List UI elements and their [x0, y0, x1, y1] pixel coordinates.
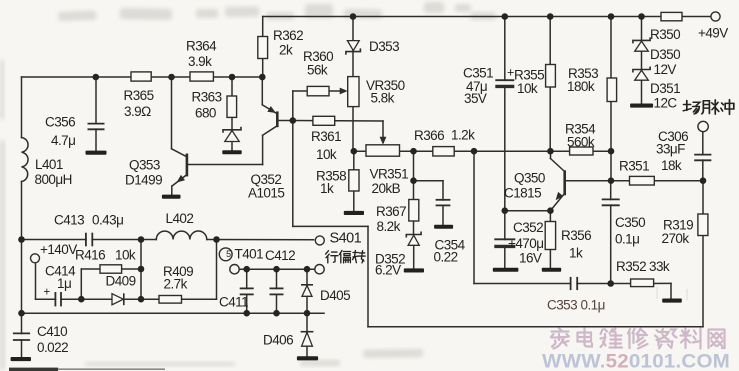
svg-text:800μH: 800μH: [35, 172, 72, 187]
svg-text:0.1μ: 0.1μ: [615, 232, 639, 247]
svg-text:L402: L402: [166, 211, 194, 226]
svg-text:R365: R365: [124, 88, 154, 103]
svg-text:1k: 1k: [320, 181, 334, 196]
svg-text:C412: C412: [265, 248, 295, 263]
svg-text:R356: R356: [561, 228, 591, 243]
svg-text:10k: 10k: [115, 248, 136, 263]
svg-text:R364: R364: [186, 39, 217, 54]
svg-text:+470μ: +470μ: [508, 236, 543, 251]
svg-text:D350: D350: [650, 47, 680, 62]
svg-text:C356: C356: [45, 115, 75, 130]
svg-text:D406: D406: [263, 333, 293, 348]
svg-text:270k: 270k: [662, 231, 690, 246]
svg-text:0.22: 0.22: [434, 250, 458, 265]
svg-text:33k: 33k: [649, 259, 670, 274]
svg-text:1k: 1k: [569, 246, 583, 261]
svg-text:L401: L401: [35, 157, 63, 172]
svg-text:C352: C352: [513, 220, 543, 235]
svg-text:C1815: C1815: [504, 186, 541, 201]
svg-text:10k: 10k: [316, 147, 337, 162]
svg-text:12V: 12V: [654, 62, 677, 77]
svg-text:10k: 10k: [517, 81, 538, 96]
svg-text:D409: D409: [106, 274, 136, 289]
svg-text:6.2V: 6.2V: [375, 263, 401, 278]
svg-text:560k: 560k: [567, 135, 595, 150]
svg-text:33μF: 33μF: [656, 142, 685, 157]
svg-text:+: +: [44, 287, 51, 299]
svg-text:18k: 18k: [661, 158, 682, 173]
svg-text:D353: D353: [369, 39, 399, 54]
svg-text:S401: S401: [330, 231, 362, 247]
svg-text:WWW.520101.COM: WWW.520101.COM: [542, 351, 730, 371]
svg-text:+49V: +49V: [698, 26, 728, 41]
svg-text:VR351: VR351: [370, 167, 409, 182]
svg-text:+: +: [507, 66, 514, 80]
svg-text:8.2k: 8.2k: [377, 219, 401, 234]
svg-text:D1499: D1499: [125, 173, 162, 188]
svg-text:+140V: +140V: [40, 242, 77, 257]
svg-text:R367: R367: [376, 204, 406, 219]
svg-text:R361: R361: [311, 129, 341, 144]
svg-text:R416: R416: [75, 248, 105, 263]
svg-text:5: 5: [226, 249, 231, 259]
svg-text:5.8k: 5.8k: [371, 91, 395, 106]
svg-text:0.022: 0.022: [37, 340, 68, 355]
svg-text:R351: R351: [619, 159, 649, 174]
svg-text:0.43μ: 0.43μ: [92, 213, 123, 228]
svg-text:C413: C413: [54, 213, 84, 228]
svg-text:35V: 35V: [464, 91, 487, 106]
svg-text:0.1μ: 0.1μ: [581, 298, 605, 313]
svg-text:R352: R352: [616, 259, 646, 274]
svg-text:20kB: 20kB: [372, 181, 401, 196]
svg-text:R363: R363: [192, 90, 222, 105]
svg-text:R362: R362: [273, 28, 303, 43]
svg-text:R366: R366: [414, 128, 444, 143]
svg-text:1μ: 1μ: [57, 276, 71, 291]
svg-text:16V: 16V: [519, 251, 542, 266]
svg-text:R350: R350: [650, 27, 680, 42]
svg-text:680: 680: [195, 106, 216, 121]
svg-text:4.7μ: 4.7μ: [51, 133, 75, 148]
svg-text:D405: D405: [320, 288, 350, 303]
svg-text:2k: 2k: [279, 43, 293, 58]
svg-text:56k: 56k: [307, 63, 328, 78]
svg-text:2.7k: 2.7k: [164, 277, 188, 292]
svg-text:Q350: Q350: [514, 171, 545, 186]
svg-text:C350: C350: [615, 215, 645, 230]
svg-text:C411: C411: [219, 295, 248, 310]
svg-text:1.2k: 1.2k: [451, 128, 475, 143]
svg-text:A1015: A1015: [248, 186, 284, 201]
svg-text:Q353: Q353: [129, 158, 160, 173]
svg-text:3.9Ω: 3.9Ω: [124, 104, 151, 119]
svg-text:C353: C353: [547, 298, 577, 313]
svg-text:T401: T401: [235, 247, 264, 262]
svg-text:D351: D351: [650, 81, 680, 96]
svg-text:C410: C410: [37, 324, 67, 339]
svg-text:180k: 180k: [567, 79, 595, 94]
svg-text:12C: 12C: [654, 96, 678, 111]
svg-text:3.9k: 3.9k: [188, 54, 212, 69]
